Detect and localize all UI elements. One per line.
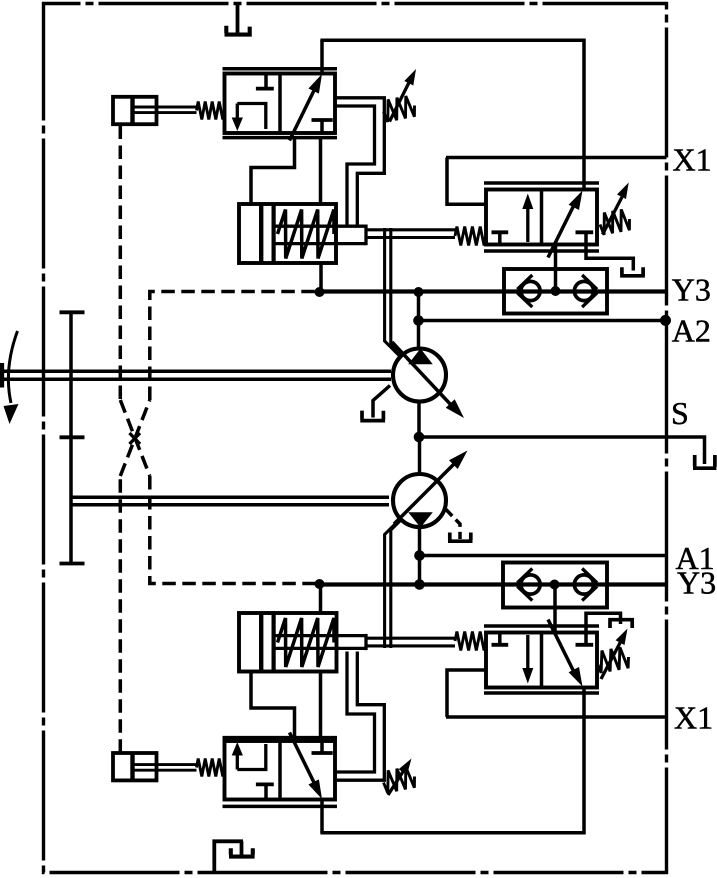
- valve V3 right chamber flow arrow (diagonal): [290, 733, 323, 800]
- wire X1 to valve V2 (left elbow): [447, 158, 486, 205]
- valve V1 right chamber flow arrow (diagonal): [290, 74, 323, 141]
- tank T4 (pump P2 drain): [448, 533, 473, 542]
- valve V2 proportional rails: [484, 183, 599, 251]
- shuttle valve W2 right check ball: [574, 575, 593, 594]
- pump P1 case drain: [373, 386, 390, 418]
- valve V2 adjustable spring (right): [600, 183, 630, 235]
- valve V4 adjustable spring (right): [597, 629, 629, 680]
- label X1 (bottom): [674, 700, 713, 736]
- shuttle valve W1 body: [504, 269, 607, 314]
- cylinder C1 spring: [278, 210, 335, 259]
- node P1-A2 junction: [413, 315, 424, 326]
- cylinder C1 body: [239, 204, 336, 263]
- wire X1 bottom rail: [446, 715, 667, 719]
- crossing mark x: [130, 433, 141, 444]
- label Y3 (top): [672, 272, 711, 308]
- wire C2 rod to pump P2 swashplate (mechanical double line): [385, 519, 402, 648]
- shuttle valve W2 body: [503, 563, 607, 608]
- wire A1 to Y3 bottom: [418, 556, 422, 585]
- wire V1 to cylinder C1 rod (mechanical double line): [335, 98, 384, 227]
- drive shaft end cap: [0, 363, 4, 388]
- node P2-A1 junction: [414, 550, 425, 561]
- valve V4 chamber divider: [540, 633, 544, 688]
- tank T2 (pump P1 drain): [360, 411, 385, 421]
- cylinder C2 rod band: [274, 634, 366, 650]
- tank T1 (top, on enclosure border): [225, 4, 252, 35]
- valve V4 blocked port T (top left): [492, 633, 509, 645]
- valve V2 blocked port T (bottom left): [492, 232, 509, 244]
- label X1 (top): [673, 142, 712, 178]
- valve V3 body: [225, 741, 336, 800]
- wire S to pump P2: [418, 437, 422, 472]
- tank T5 (S port, outside border): [693, 455, 716, 468]
- rotation arrow (drive direction): [4, 331, 19, 424]
- shaft coupling link (vertical, with end bars): [60, 312, 85, 563]
- svg-text:X1: X1: [674, 700, 713, 736]
- tank T7 (valve V4 drain, inverted): [608, 620, 634, 628]
- cylinder C2 spring: [278, 618, 335, 667]
- valve V1 blocked port T (bottom right): [312, 120, 333, 133]
- pump P2 (variable displacement, lower): [393, 474, 446, 527]
- wire Y3 top rail: [320, 289, 667, 293]
- drive shaft (double line, upper): [2, 371, 391, 379]
- pump P2 variable arrow: [394, 451, 468, 525]
- tank T6 (bottom, on enclosure border): [214, 841, 254, 872]
- pilot piston Z2 rod: [135, 765, 197, 771]
- valve V1 blocked port T (top): [256, 74, 274, 89]
- wire V2 to shuttle valve: [554, 245, 558, 292]
- pump P1 (variable displacement, upper): [393, 349, 446, 402]
- pump P2 flow triangle: [408, 512, 433, 527]
- valve V4 blocked port T (top right): [576, 633, 594, 645]
- valve V3 blocked port T (bottom): [256, 784, 274, 799]
- valve V2 left chamber flow arrow (up): [522, 194, 533, 243]
- valve V2 blocked port T (bottom right): [576, 232, 594, 244]
- valve V4 left chamber flow arrow (down): [522, 635, 533, 684]
- pilot piston Z1 rod: [135, 107, 197, 113]
- drive shaft (double line, lower to pump 2): [71, 497, 389, 505]
- svg-text:Y3: Y3: [677, 565, 716, 601]
- shuttle valve W1 right seat: [582, 275, 597, 307]
- valve V3 blocked port T (top right): [312, 741, 333, 753]
- wire C1 rod to pump P1 swashplate (mechanical double line): [385, 228, 402, 357]
- wire P2 bottom port to A1: [418, 527, 422, 556]
- node C1-Y3 junction: [315, 287, 325, 297]
- valve V4 right chamber flow arrow (diagonal): [548, 620, 583, 687]
- node C2-Y3 junction: [315, 579, 325, 589]
- cylinder C1 rod (to valve V2 spring): [366, 230, 455, 238]
- pump P1 variable arrow: [392, 342, 464, 418]
- valve V1 left chamber flow arrow (down): [232, 104, 266, 132]
- wire X1 bottom to valve V4 (left elbow): [447, 670, 486, 717]
- valve V1 spring (left): [197, 102, 225, 120]
- shuttle valve W2 right seat: [582, 569, 597, 601]
- wire A2 rail: [419, 319, 667, 323]
- node A2 (junction dot on border): [660, 315, 671, 326]
- shuttle valve W1 right check ball: [574, 281, 593, 300]
- pilot feedback line (from top pilot piston, dashed): [120, 126, 316, 584]
- wire Y3 bottom rail: [320, 582, 667, 586]
- wire V3 top-left port to cylinder C2: [251, 672, 295, 738]
- cylinder C1 rod band: [274, 225, 366, 246]
- node S junction: [414, 432, 425, 443]
- wire C1 bottom port to Y3: [319, 263, 323, 292]
- valve V3 spring (left): [197, 759, 225, 777]
- node P2-Y3 junction: [414, 579, 425, 590]
- wire V1 bottom port to cylinder C1 spring side: [319, 138, 323, 204]
- wire S to external tank: [667, 437, 705, 464]
- label Y3 (bottom): [677, 565, 716, 601]
- shuttle valve W1 left seat: [517, 275, 532, 307]
- pilot feedback line (from bottom pilot piston, dashed): [120, 292, 316, 753]
- shuttle valve W1 left check ball: [521, 281, 540, 300]
- cylinder C1 piston plates: [261, 204, 273, 263]
- valve V1 proportional rails: [223, 69, 338, 138]
- valve V3 left chamber flow arrow (up): [232, 742, 266, 770]
- wire V4 to shuttle valve: [553, 585, 557, 633]
- label A1: [676, 540, 715, 576]
- wire X1 top rail: [446, 156, 667, 160]
- svg-text:S: S: [671, 395, 689, 431]
- valve V4 body: [486, 633, 597, 688]
- valve V3 adjustable spring (right): [384, 759, 415, 796]
- valve V2 spring (left, from C1 rod): [455, 227, 486, 246]
- wire A1 rail: [420, 554, 667, 558]
- wire V2 drain to tank: [586, 245, 633, 271]
- wire C2 top port to Y3 bottom: [319, 585, 323, 614]
- shuttle valve W2 left seat: [517, 569, 532, 601]
- wire V1 top port to X1 loop: [320, 40, 324, 74]
- valve V2 body: [486, 190, 597, 245]
- cylinder C2 rod (to valve V4 spring): [366, 638, 455, 646]
- wire V4 drain to tank: [586, 613, 621, 632]
- wire S rail: [419, 435, 667, 439]
- valve V2 right chamber flow arrow (diagonal): [548, 191, 583, 258]
- shuttle valve W2 left check ball: [521, 575, 540, 594]
- valve V1 adjustable spring (right): [384, 69, 417, 122]
- svg-text:A2: A2: [672, 313, 711, 349]
- pump P2 case drain (dashed): [446, 510, 460, 540]
- tank T3 (valve V2 drain): [620, 267, 645, 276]
- valve V4 spring (left, from C2 rod): [455, 632, 486, 651]
- svg-text:X1: X1: [673, 142, 712, 178]
- wire V3 to cylinder C2 rod (mechanical double line): [335, 652, 384, 781]
- valve V4 proportional rails: [484, 626, 599, 693]
- valve V2 chamber divider: [540, 190, 544, 245]
- label S: [671, 395, 689, 431]
- wire X1 loop (top run): [320, 40, 584, 189]
- wire X1 loop (bottom run): [320, 688, 584, 833]
- wire P1 bottom port to S: [417, 404, 421, 438]
- node shuttle W2 center: [550, 580, 560, 590]
- valve V1 body: [225, 74, 336, 134]
- wire P1 top port to Y3/A2: [417, 292, 421, 349]
- cylinder C2 body: [239, 613, 337, 672]
- cylinder C2 piston plates: [261, 613, 273, 672]
- wire V3 top port to cylinder C2 spring side: [319, 672, 323, 738]
- node shuttle W1 center: [551, 286, 561, 296]
- wire V1 bottom-left port to cylinder C1: [251, 138, 295, 204]
- valve V3 proportional rails: [223, 738, 338, 807]
- node P1-Y3 junction: [414, 287, 424, 297]
- pilot piston Z2 (bottom): [113, 753, 157, 780]
- svg-text:Y3: Y3: [672, 272, 711, 308]
- valve V1 chamber divider: [278, 74, 282, 134]
- label A2: [672, 313, 711, 349]
- pilot piston Z1 (top): [113, 97, 157, 124]
- valve V3 chamber divider: [278, 741, 282, 800]
- wire V3 bottom port to X1 loop: [320, 800, 324, 834]
- pump P1 flow triangle: [408, 349, 433, 365]
